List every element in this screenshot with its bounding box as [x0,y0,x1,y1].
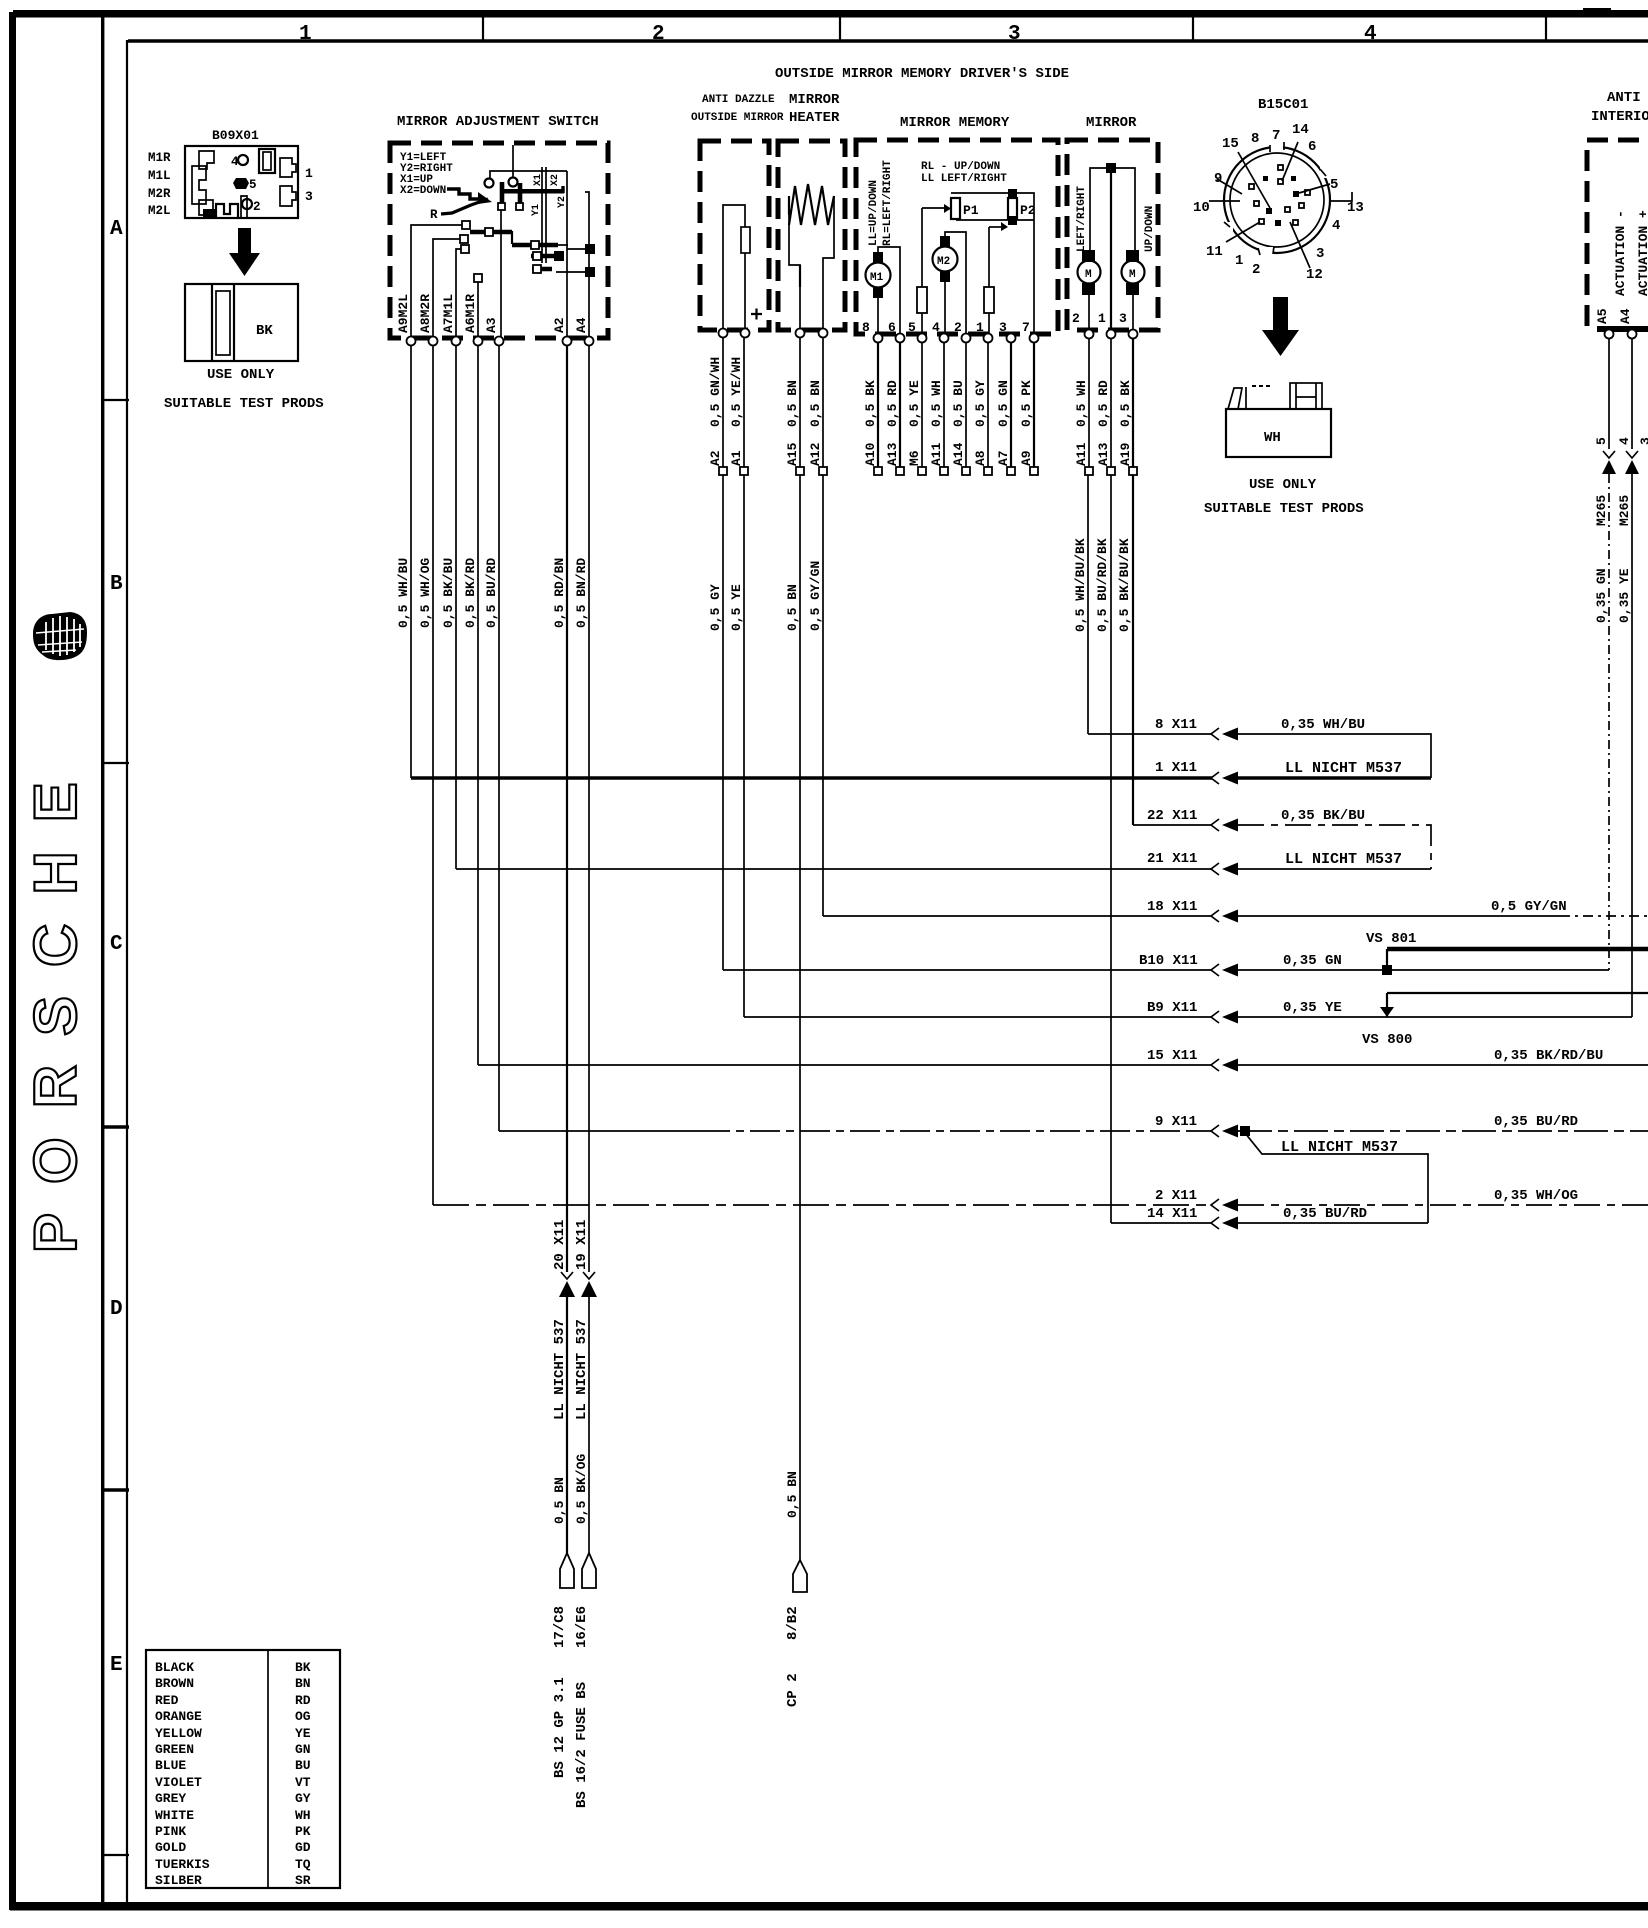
svg-text:3: 3 [1008,23,1021,46]
row 15 X11 0,35 BK/RD/BU [478,1048,1648,1072]
svg-text:0,35 BK/BU: 0,35 BK/BU [1281,808,1365,824]
svg-text:M1L: M1L [148,169,171,183]
svg-text:0,5 BK/BU/BK: 0,5 BK/BU/BK [1117,538,1132,632]
branch LL NICHT M537 to 14 X11 [1245,1133,1428,1223]
svg-text:8: 8 [1251,131,1259,147]
svg-text:0,5 GY/GN: 0,5 GY/GN [808,561,823,631]
svg-text:12: 12 [1306,267,1323,283]
wire 20 X11 down leg [552,1220,575,1778]
svg-text:A4: A4 [1618,308,1633,324]
heater element [789,184,834,333]
svg-text:2: 2 [253,200,261,214]
pin leader lines [1209,142,1352,268]
svg-text:M265: M265 [1594,495,1609,526]
photo sensor element [723,205,745,333]
svg-text:RL=LEFT/RIGHT: RL=LEFT/RIGHT [882,160,894,246]
column wires X [541,167,543,263]
svg-text:0,35 BU/RD: 0,35 BU/RD [1494,1114,1578,1130]
memory stub A14 0,5 BU [965,342,967,467]
svg-text:6: 6 [1308,139,1316,155]
svg-text:A9M2L: A9M2L [396,294,411,333]
svg-text:0,5 BK: 0,5 BK [863,380,878,427]
svg-text:Y1: Y1 [531,204,542,216]
svg-text:GY: GY [295,1791,311,1806]
svg-text:20 X11: 20 X11 [552,1220,568,1270]
svg-text:SUITABLE TEST PRODS: SUITABLE TEST PRODS [164,396,324,412]
memory stub A13 0,5 RD [899,342,901,467]
wire dazzle A2 0,5 GN/WH [722,337,724,970]
memory stub A10 0,5 BK [877,342,879,467]
contact A7M1L [456,249,461,338]
svg-text:A3: A3 [484,317,499,333]
svg-text:PK: PK [295,1824,311,1839]
svg-text:WHITE: WHITE [155,1808,194,1823]
svg-text:A7: A7 [996,450,1011,466]
motor M1 [866,247,901,336]
connector B09X01 face view [185,146,298,218]
svg-text:M: M [1085,269,1092,281]
svg-text:INTERIO: INTERIO [1591,109,1648,125]
svg-text:BLACK: BLACK [155,1660,194,1675]
junction dots P2 [1008,189,1017,198]
svg-text:PORSCHE: PORSCHE [22,753,89,1253]
svg-text:7: 7 [1022,320,1030,335]
svg-text:ORANGE: ORANGE [155,1709,202,1724]
svg-text:P1: P1 [963,203,979,218]
svg-text:16/E6: 16/E6 [574,1606,590,1648]
wire heater A12 0,5 BN [822,337,824,916]
svg-text:8 X11: 8 X11 [1155,717,1197,733]
wire from box top [512,145,514,177]
mirror adjustment switch box [390,143,608,338]
svg-text:10: 10 [1193,200,1210,216]
svg-text:USE ONLY: USE ONLY [207,367,275,383]
plus sign [751,309,762,320]
svg-text:0,5 RD: 0,5 RD [1096,380,1111,427]
off-page arrow 16/E6 [582,1553,596,1588]
svg-text:9: 9 [1214,171,1222,187]
svg-text:ACTUATION -: ACTUATION - [1613,210,1628,296]
wire dazzle A1 0,5 YE/WH [743,337,745,1017]
svg-text:0,5 PK: 0,5 PK [1019,380,1034,427]
svg-text:0,5 BU: 0,5 BU [951,380,966,427]
row 18 X11 0,5 GY/GN [823,899,1648,923]
svg-text:0,5 YE/WH: 0,5 YE/WH [729,357,744,427]
svg-text:LL NICHT M537: LL NICHT M537 [1285,760,1402,777]
svg-text:RED: RED [155,1693,179,1708]
svg-text:ACTUATION +: ACTUATION + [1636,210,1648,296]
svg-text:GOLD: GOLD [155,1840,186,1855]
svg-text:WH: WH [295,1808,311,1823]
svg-text:0,5 BK/OG: 0,5 BK/OG [574,1454,589,1524]
bottom rail [956,219,1034,221]
svg-text:0,5 WH: 0,5 WH [1074,380,1089,427]
svg-text:0,35 GN: 0,35 GN [1283,953,1342,969]
row 22 X11 0,35 BK/BU [1133,808,1431,869]
svg-text:M6: M6 [907,450,922,466]
svg-text:A1: A1 [729,450,744,466]
svg-text:BU: BU [295,1758,311,1773]
svg-text:0,35 YE: 0,35 YE [1617,568,1632,623]
mirror box [1067,140,1158,330]
svg-text:RD: RD [295,1693,311,1708]
svg-text:0,5 WH/OG: 0,5 WH/OG [418,558,433,628]
svg-text:M2L: M2L [148,204,171,218]
wire CP 2 down leg [785,1471,807,1707]
memory stub A7 0,5 GN [1010,342,1012,467]
svg-text:7: 7 [1272,128,1280,144]
svg-text:A15: A15 [785,442,800,466]
svg-text:GREY: GREY [155,1791,186,1806]
svg-text:0,5 BN: 0,5 BN [785,1471,800,1518]
svg-text:0,5 WH/BU/BK: 0,5 WH/BU/BK [1073,538,1088,632]
svg-text:2 X11: 2 X11 [1155,1188,1197,1204]
rocker contact strips [470,230,512,235]
svg-text:13: 13 [1347,200,1364,216]
svg-text:LL NICHT M537: LL NICHT M537 [1285,851,1402,868]
svg-text:A2: A2 [708,450,723,466]
svg-text:14: 14 [1292,122,1309,138]
svg-text:X2=DOWN: X2=DOWN [400,185,446,197]
wire A4 riser [585,192,589,338]
svg-text:M265: M265 [1617,495,1632,526]
svg-text:HEATER: HEATER [789,110,840,126]
row 1 X11 LL NICHT M537 [411,760,1431,785]
svg-text:B9 X11: B9 X11 [1147,1000,1197,1016]
svg-text:4: 4 [1364,23,1377,46]
svg-text:0,5 BN: 0,5 BN [808,380,823,427]
potentiometer P2 [1008,198,1017,219]
rocker bus bar [501,189,564,194]
svg-text:BS 12 GP 3.1: BS 12 GP 3.1 [552,1677,568,1778]
svg-text:TUERKIS: TUERKIS [155,1857,210,1872]
motor M2 [933,232,967,336]
svg-text:0,5 BN/RD: 0,5 BN/RD [574,558,589,628]
memory stub M6 0,5 YE [921,342,923,467]
wire A3 0,5 BU/RD [498,345,500,1131]
svg-text:0,5 YE: 0,5 YE [907,380,922,427]
svg-text:MIRROR: MIRROR [1086,115,1137,131]
arrow down to test connector [1262,297,1299,356]
svg-text:UP/DOWN: UP/DOWN [1144,206,1156,252]
wire pin1 [1110,168,1112,333]
anti dazzle interior mirror box [1587,140,1648,326]
svg-text:5: 5 [1330,177,1338,193]
svg-text:B15C01: B15C01 [1258,97,1308,113]
svg-text:BLUE: BLUE [155,1758,186,1773]
svg-text:LL LEFT/RIGHT: LL LEFT/RIGHT [921,173,1007,185]
wire A8M2R 0,5 WH/OG [432,345,434,1205]
svg-text:B: B [110,573,123,596]
mirror wire A11 0,5 WH [1088,338,1089,734]
svg-text:22 X11: 22 X11 [1147,808,1197,824]
svg-text:A: A [110,218,123,241]
svg-text:2: 2 [652,23,665,46]
legend Y1=LEFT Y2=RIGHT X1=UP X2=DOWN [400,152,453,197]
svg-text:A8M2R: A8M2R [418,294,433,333]
svg-text:M1R: M1R [148,151,171,165]
svg-text:E: E [110,1654,123,1677]
svg-text:ANTI DAZZLE: ANTI DAZZLE [702,94,775,106]
svg-text:X1: X1 [533,174,544,186]
mirror wire A13 0,5 RD [1110,338,1112,1223]
svg-text:A5: A5 [1595,308,1610,324]
circular connector B15C01 face [1222,142,1332,257]
node VS 800 [1362,993,1648,1048]
top rail [951,193,1034,336]
off-page arrow 17/C8 [560,1553,574,1588]
svg-text:0,35 BK/RD/BU: 0,35 BK/RD/BU [1494,1048,1603,1064]
svg-text:0,35 BU/RD: 0,35 BU/RD [1283,1206,1367,1222]
svg-text:1: 1 [299,23,312,46]
contact circle [509,178,518,187]
svg-text:18 X11: 18 X11 [1147,899,1197,915]
svg-text:0,5 BK/BU: 0,5 BK/BU [441,558,456,628]
svg-text:CP 2: CP 2 [785,1673,801,1707]
wire A6M1R 0,5 BK/RD [477,345,479,1065]
svg-text:A12: A12 [808,442,823,466]
svg-text:0,5 BU/RD/BK: 0,5 BU/RD/BK [1095,538,1110,632]
feedback resistor pin1 [988,227,990,336]
svg-text:A8: A8 [973,450,988,466]
svg-text:GD: GD [295,1840,311,1855]
wire heater A15 0,5 BN [799,337,801,1560]
svg-text:2: 2 [1252,262,1260,278]
svg-text:VIOLET: VIOLET [155,1775,202,1790]
svg-text:21 X11: 21 X11 [1147,851,1197,867]
mirror heater box [778,141,845,330]
motor M right [1122,250,1145,333]
svg-text:M2R: M2R [148,187,171,201]
svg-text:A11: A11 [929,442,944,466]
svg-text:A19: A19 [1118,442,1133,466]
anti dazzle outside mirror box [700,141,769,330]
memory stub A9 0,5 PK [1033,342,1035,467]
node VS 801 [1366,931,1648,970]
svg-text:M2: M2 [937,256,950,268]
svg-text:MIRROR: MIRROR [789,92,840,108]
svg-text:PINK: PINK [155,1824,186,1839]
svg-text:4: 4 [231,155,239,169]
svg-text:5: 5 [249,178,257,192]
svg-text:A10: A10 [863,442,878,466]
Porsche crest logo [33,612,87,660]
svg-text:A11: A11 [1074,442,1089,466]
wire A4 0,5 BN/RD [588,345,590,1272]
svg-text:M1: M1 [870,272,884,284]
svg-text:A7M1L: A7M1L [441,294,456,333]
wire common top [490,171,567,178]
svg-text:VT: VT [295,1775,311,1790]
svg-text:BROWN: BROWN [155,1676,194,1691]
svg-text:3: 3 [305,189,313,204]
svg-text:0,5 BN: 0,5 BN [785,584,800,631]
svg-text:M: M [1129,269,1136,281]
svg-text:A13: A13 [1096,442,1111,466]
svg-text:3: 3 [999,320,1007,335]
svg-text:SILBER: SILBER [155,1873,202,1888]
svg-text:C: C [110,933,123,956]
svg-text:8: 8 [862,320,870,335]
svg-text:3: 3 [1316,246,1324,262]
row 14 X11 0,35 BU/RD [1111,1206,1428,1230]
pin circles memory [874,334,883,343]
pin circles switch [407,337,416,346]
svg-text:0,5 WH: 0,5 WH [929,380,944,427]
off-page arrow 8/B2 [793,1560,807,1592]
svg-text:1: 1 [1235,253,1243,269]
svg-text:0,5 BN: 0,5 BN [785,380,800,427]
svg-text:1: 1 [305,166,313,181]
svg-text:0,5 GN: 0,5 GN [996,380,1011,427]
svg-text:0,35 WH/OG: 0,35 WH/OG [1494,1188,1578,1204]
row B10 X11 0,35 GN [723,953,1609,977]
junction dot [1106,163,1116,173]
svg-text:A9: A9 [1019,450,1034,466]
svg-text:LL NICHT 537: LL NICHT 537 [574,1319,590,1420]
svg-text:0,5 BK: 0,5 BK [1118,380,1133,427]
svg-text:15: 15 [1222,136,1239,152]
svg-text:3: 3 [1119,311,1127,326]
colour code table [146,1650,340,1888]
svg-text:SR: SR [295,1873,311,1888]
svg-text:6: 6 [888,320,896,335]
svg-text:R: R [430,208,438,222]
mirror memory box [856,140,1058,334]
svg-text:15 X11: 15 X11 [1147,1048,1197,1064]
svg-text:VS 801: VS 801 [1366,931,1416,947]
svg-text:USE ONLY: USE ONLY [1249,477,1317,493]
svg-text:0,35 GN: 0,35 GN [1594,568,1609,623]
svg-text:OUTSIDE MIRROR: OUTSIDE MIRROR [691,112,784,124]
svg-text:BN: BN [295,1676,311,1691]
wire A4 0,35 YE [1631,338,1633,449]
svg-text:X2: X2 [550,174,561,186]
svg-text:BS 16/2 FUSE BS: BS 16/2 FUSE BS [574,1682,590,1808]
svg-text:GREEN: GREEN [155,1742,194,1757]
svg-text:1 X11: 1 X11 [1155,760,1197,776]
svg-text:1: 1 [976,320,984,335]
svg-text:4: 4 [932,320,940,335]
svg-text:BK: BK [295,1660,311,1675]
svg-text:SUITABLE TEST PRODS: SUITABLE TEST PRODS [1204,501,1364,517]
svg-text:0,5 BN: 0,5 BN [552,1477,567,1524]
svg-text:ANTI: ANTI [1607,90,1641,106]
annotation arrow to contacts [447,189,481,199]
row 8 X11 0,35 WH/BU [1088,717,1431,778]
svg-text:LL NICHT 537: LL NICHT 537 [552,1319,568,1420]
wire A9M2L 0,5 WH/BU [410,345,412,778]
pin circles [1605,330,1614,339]
contact circle [485,179,494,188]
svg-text:3: 3 [1638,437,1648,445]
row 21 X11 LL NICHT M537 [456,851,1431,876]
svg-text:0,35 YE: 0,35 YE [1283,1000,1342,1016]
svg-text:0,5 GY: 0,5 GY [973,380,988,427]
svg-text:0,5 GY/GN: 0,5 GY/GN [1491,899,1567,915]
svg-text:RL - UP/DOWN: RL - UP/DOWN [921,161,1000,173]
svg-text:14 X11: 14 X11 [1147,1206,1197,1222]
svg-text:11: 11 [1206,244,1223,260]
svg-text:0,5 YE: 0,5 YE [729,584,744,631]
wire A2 riser [566,171,568,338]
svg-text:WH: WH [1264,430,1281,446]
svg-text:B10 X11: B10 X11 [1139,953,1198,969]
svg-text:GN: GN [295,1742,311,1757]
svg-text:MIRROR ADJUSTMENT SWITCH: MIRROR ADJUSTMENT SWITCH [397,114,599,130]
motor M left [1078,250,1101,333]
svg-text:0,35 WH/BU: 0,35 WH/BU [1281,717,1365,733]
contact squares under bar [498,203,505,210]
wire A3 riser [500,210,502,338]
svg-text:VS 800: VS 800 [1362,1032,1412,1048]
arrow down to test connector [229,228,260,276]
contact A9M2L [411,225,462,338]
svg-text:1: 1 [1098,311,1106,326]
svg-text:TQ: TQ [295,1857,311,1872]
memory stub A8 0,5 GY [987,342,989,467]
svg-text:0,5 GY: 0,5 GY [708,584,723,631]
svg-text:5: 5 [1594,437,1609,445]
svg-text:A14: A14 [951,442,966,466]
svg-text:0,5 GN/WH: 0,5 GN/WH [708,357,723,427]
contact A6M1R [477,282,479,338]
svg-text:0,5 WH/BU: 0,5 WH/BU [396,558,411,628]
svg-text:YELLOW: YELLOW [155,1726,202,1741]
svg-text:LL NICHT M537: LL NICHT M537 [1281,1139,1398,1156]
top link wire [1090,168,1135,255]
svg-text:A13: A13 [885,442,900,466]
connector pins [1249,165,1310,226]
svg-text:A4: A4 [574,317,589,333]
row B9 X11 0,35 YE [744,1000,1632,1024]
svg-text:9 X11: 9 X11 [1155,1114,1197,1130]
pin circles mirror [1085,330,1094,339]
svg-text:2: 2 [954,320,962,335]
potentiometer P1 [951,198,960,219]
svg-text:0,5 BU/RD: 0,5 BU/RD [484,558,499,628]
test connector back view BK [185,284,298,361]
svg-text:D: D [110,1298,123,1321]
svg-text:17/C8: 17/C8 [552,1606,568,1648]
svg-text:YE: YE [295,1726,311,1741]
svg-text:LL=UP/DOWN: LL=UP/DOWN [868,180,880,246]
feedback resistor pin5 [921,208,923,336]
row 2 X11 0,35 WH/OG [433,1188,1648,1212]
svg-text:BK: BK [256,323,273,339]
wire A2 0,5 RD/BN [566,345,568,1272]
svg-text:A6M1R: A6M1R [463,294,478,333]
row 9 X11 0,35 BU/RD [499,1114,1648,1138]
svg-text:8/B2: 8/B2 [785,1606,801,1640]
test connector WH [1226,383,1331,457]
svg-text:4: 4 [1617,437,1632,445]
svg-text:OG: OG [295,1709,311,1724]
svg-text:MIRROR MEMORY: MIRROR MEMORY [900,115,1010,131]
svg-text:4: 4 [1332,218,1340,234]
svg-text:19 X11: 19 X11 [574,1220,590,1270]
contact A8M2R [433,239,460,338]
svg-text:0,5 BK/RD: 0,5 BK/RD [463,558,478,628]
svg-text:OUTSIDE MIRROR MEMORY DRIVER'S: OUTSIDE MIRROR MEMORY DRIVER'S SIDE [775,66,1069,82]
svg-text:5: 5 [908,320,916,335]
wire A7M1L 0,5 BK/BU [455,345,457,869]
svg-text:0,5 RD/BN: 0,5 RD/BN [552,558,567,628]
wire 19 X11 down leg [574,1220,597,1808]
svg-text:A2: A2 [552,317,567,333]
mirror wire A19 0,5 BK [1132,338,1134,825]
svg-text:2: 2 [1072,311,1080,326]
